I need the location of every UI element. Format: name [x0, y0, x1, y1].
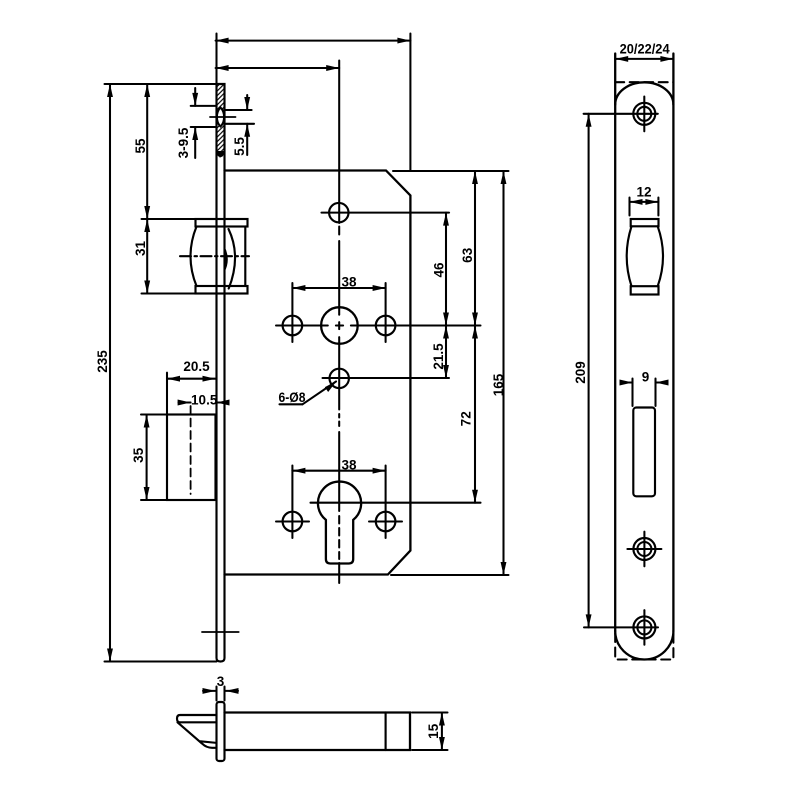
- follower left hole Ø8: [283, 316, 303, 336]
- latch bolt inner right edge: [244, 227, 246, 287]
- dimension 3 extension lines: [215, 687, 217, 701]
- 12 extension lines: [628, 198, 630, 216]
- top hole Ø8: [329, 203, 348, 222]
- dimension 63 line: [474, 171, 476, 326]
- faceplate left edge: [614, 54, 616, 632]
- cylinder left hole Ø8: [283, 512, 303, 532]
- svg-text:55: 55: [133, 138, 148, 154]
- dimension 3 left arrow: [203, 690, 216, 692]
- dimension 15 line: [441, 713, 443, 751]
- 235 top extension line: [105, 83, 217, 85]
- top outer left extension line: [215, 34, 217, 85]
- svg-text:9: 9: [642, 370, 650, 385]
- svg-text:31: 31: [133, 241, 148, 257]
- faceplate bar (edge view): [217, 84, 225, 662]
- svg-text:3-9.5: 3-9.5: [176, 127, 191, 158]
- 209 bottom extension line through bottom screw hole: [584, 626, 658, 628]
- 55/31 shared extension line: [142, 218, 196, 220]
- latch opening left bulge: [627, 226, 632, 286]
- bottom screw hole: [633, 616, 655, 638]
- dimension 3-9.5 lower arrow: [194, 127, 196, 158]
- case bottom right extension line: [391, 574, 509, 576]
- latch body side view: [225, 713, 411, 751]
- svg-text:38: 38: [341, 275, 357, 290]
- bottom screw hole vertical crosshair: [643, 610, 645, 645]
- dimension 46 line: [445, 213, 447, 326]
- latch body end cap line: [385, 713, 387, 751]
- svg-text:63: 63: [460, 247, 475, 263]
- svg-text:38: 38: [341, 458, 357, 473]
- 35 extension lines: [141, 413, 167, 415]
- faceplate square-end dashed bottom outline: [615, 633, 673, 660]
- 3-9.5 reference lines: [191, 105, 216, 107]
- 209 top extension line through top screw hole: [584, 113, 658, 115]
- latch opening bottom cap: [631, 286, 659, 294]
- dimension 35 line: [146, 415, 148, 501]
- faceplate rounded bottom arc: [615, 631, 673, 660]
- cylinder horizontal centerline: [311, 502, 481, 504]
- hatched faceplate rounded tip: [217, 151, 224, 157]
- faceplate square-end dashed top line: [615, 81, 673, 83]
- dimension 235 line: [109, 84, 111, 662]
- follower left hole vertical crosshair: [291, 283, 293, 342]
- svg-text:209: 209: [573, 361, 588, 384]
- 15 extension lines: [412, 711, 448, 713]
- latch bolt edge crescent: [224, 247, 227, 273]
- latch bolt left bulge curve: [191, 227, 197, 287]
- top outer dimension line (case width): [216, 40, 411, 42]
- follower horizontal centerline segments: [276, 324, 328, 326]
- cylinder left hole crosshairs: [276, 520, 309, 522]
- faceplate right edge: [672, 54, 674, 632]
- 20.5 left extension line: [166, 373, 168, 415]
- top inner dimension line (backset): [216, 67, 340, 69]
- dimension 20.5 line: [167, 378, 216, 380]
- top hole horizontal line to 46-dim: [322, 212, 450, 214]
- faceplate break tick: [202, 631, 239, 633]
- vertical centerline of body holes: [338, 61, 340, 224]
- dimension 12 line: [630, 201, 659, 203]
- dimension 3 right arrow: [226, 690, 239, 692]
- dimension 9 left arrow: [621, 381, 633, 383]
- countersunk screw hole lens in sectioned faceplate: [217, 108, 224, 127]
- svg-text:21.5: 21.5: [431, 343, 446, 370]
- svg-text:12: 12: [636, 185, 651, 200]
- lock case body outline with chamfered right corners: [225, 171, 411, 575]
- hatched sectioned top of faceplate: [217, 85, 225, 158]
- cylinder right hole Ø8: [376, 512, 396, 532]
- middle screw hole: [633, 538, 655, 560]
- svg-text:235: 235: [95, 350, 110, 373]
- 5.5 reference lines: [226, 109, 252, 111]
- latch bolt face curve: [229, 229, 236, 289]
- svg-text:20/22/24: 20/22/24: [620, 41, 670, 56]
- svg-text:72: 72: [458, 411, 473, 426]
- dimension 5.5 lower arrow: [246, 124, 248, 155]
- dimension 209 line: [588, 114, 590, 628]
- 6-Ø8 leader line: [303, 382, 337, 405]
- hole below follower horizontal line to 21.5-dim: [323, 377, 450, 379]
- top outer right extension line merging into case right edge: [409, 34, 411, 171]
- 31 bottom extension line: [142, 292, 196, 294]
- dimension 9 right arrow: [656, 381, 668, 383]
- deadbolt opening: [633, 408, 655, 497]
- dimension 38 lower line: [292, 470, 385, 472]
- follower right hole Ø8: [376, 316, 396, 336]
- dimension 55 line: [146, 84, 148, 219]
- top screw hole vertical crosshair: [643, 97, 645, 132]
- dimension 21.5 line: [445, 326, 447, 379]
- latch opening top cap: [631, 219, 659, 226]
- latch head inner edge: [201, 741, 217, 743]
- dimension 72 line: [474, 326, 476, 503]
- latch bolt bottom cap: [196, 286, 248, 294]
- cylinder right hole crosshairs: [369, 520, 402, 522]
- deadbolt dashed centerline: [190, 406, 192, 494]
- 235 bottom extension line: [105, 660, 217, 662]
- dimension 5.5 upper arrow: [246, 95, 248, 110]
- latch head flange: [177, 715, 217, 722]
- dimension 3-9.5 upper arrow: [194, 88, 196, 106]
- dimension 10.5 left arrow: [179, 401, 191, 403]
- top screw hole: [633, 103, 655, 125]
- latch bolt top cap: [196, 219, 248, 227]
- deadbolt (retracted, hidden) rectangle: [167, 415, 216, 501]
- dimension 31 line: [146, 219, 148, 294]
- dimension 165 line: [502, 171, 504, 575]
- middle screw hole crosshairs: [627, 548, 661, 550]
- svg-text:46: 46: [432, 262, 447, 278]
- svg-text:5.5: 5.5: [232, 137, 247, 156]
- latch opening right bulge: [658, 226, 663, 286]
- hole below follower Ø8: [330, 369, 349, 388]
- latch head bevel: [178, 722, 217, 748]
- svg-text:20.5: 20.5: [183, 359, 210, 374]
- follower square spindle hole: [321, 307, 358, 344]
- dimension 20/22/24 line: [615, 58, 673, 60]
- svg-text:35: 35: [131, 447, 146, 463]
- case top right extension line: [393, 170, 509, 172]
- svg-text:10.5: 10.5: [191, 393, 218, 408]
- dimension 38 upper line: [292, 287, 385, 289]
- follower right hole vertical crosshair: [385, 283, 387, 342]
- faceplate cross bar: [217, 702, 225, 761]
- 9 extension lines: [631, 379, 633, 407]
- svg-text:15: 15: [426, 723, 441, 739]
- svg-text:6-Ø8: 6-Ø8: [279, 390, 306, 405]
- svg-text:3: 3: [217, 674, 225, 689]
- dimension 10.5 right arrow: [217, 401, 228, 403]
- latch centerline (dash-dot): [180, 255, 249, 257]
- screw hole centerline: [210, 116, 236, 118]
- faceplate rounded top arc: [615, 82, 673, 104]
- euro profile cylinder hole: [318, 482, 361, 564]
- svg-text:165: 165: [491, 373, 506, 396]
